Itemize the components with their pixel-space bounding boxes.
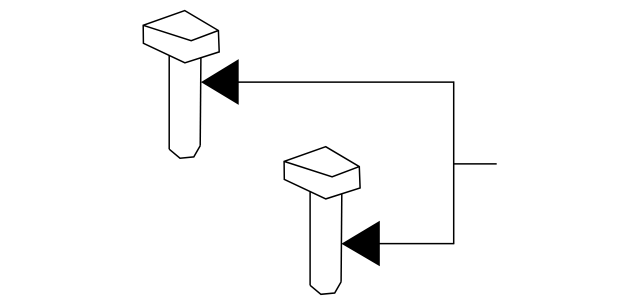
arrow A1 (points to bolt B1) <box>201 59 239 105</box>
bolt B2 head top-face inner edges <box>284 161 359 176</box>
bolt B1 head top-face inner edges <box>143 25 218 40</box>
bolt B1 shank left edge <box>168 55 170 149</box>
callout tick wire <box>454 163 497 165</box>
wire from vertical bus to arrow A2 <box>379 243 454 245</box>
bolt B1 shank right edge <box>199 58 202 146</box>
bolt B2 shank right edge <box>340 194 343 282</box>
bolt B1 chamfered tip <box>169 146 200 158</box>
bolt B2 (lower-right square-head bolt) <box>284 147 360 295</box>
bolt B1 head outline <box>143 11 219 63</box>
bolt B1 (upper-left square-head bolt) <box>143 11 219 159</box>
wire from arrow A1 to vertical bus <box>238 81 454 83</box>
vertical bus wire <box>453 81 455 244</box>
bolt B2 chamfered tip <box>310 282 341 294</box>
bolt B2 head outline <box>284 147 360 199</box>
bolt B2 shank left edge <box>309 191 311 285</box>
arrow A2 (points to bolt B2) <box>341 221 379 266</box>
